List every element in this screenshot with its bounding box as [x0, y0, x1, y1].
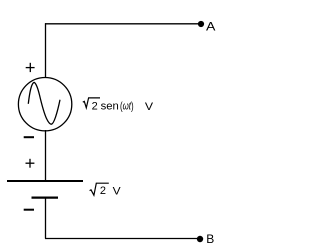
ac source V1 minus polarity [24, 136, 34, 138]
battery V2 long plate [7, 180, 83, 182]
svg-text:V: V [145, 101, 154, 113]
node B terminal dot [197, 236, 203, 242]
wire top vertical [45, 23, 47, 78]
svg-text:2: 2 [92, 100, 98, 112]
svg-text:B: B [206, 232, 214, 246]
battery V2 value label [90, 183, 122, 197]
wire top horizontal [45, 23, 199, 25]
wire bottom horizontal [45, 238, 198, 240]
svg-text:2: 2 [100, 185, 106, 197]
svg-text:V: V [113, 185, 122, 197]
ac source V1 value label [83, 98, 154, 113]
ac source V1 plus polarity [26, 63, 35, 72]
wire middle vertical [45, 130, 47, 181]
battery V2 plus polarity [26, 159, 35, 168]
battery V2 minus polarity [24, 209, 34, 211]
ac source V1 circle [18, 78, 71, 131]
svg-text:A: A [206, 19, 215, 33]
wire bottom vertical [45, 198, 47, 239]
ac source V1 sine wave [28, 82, 60, 124]
node A terminal dot [198, 21, 204, 27]
battery V2 short plate [32, 196, 59, 198]
svg-text:(ωt): (ωt) [120, 100, 134, 112]
svg-text:sen: sen [101, 100, 119, 112]
